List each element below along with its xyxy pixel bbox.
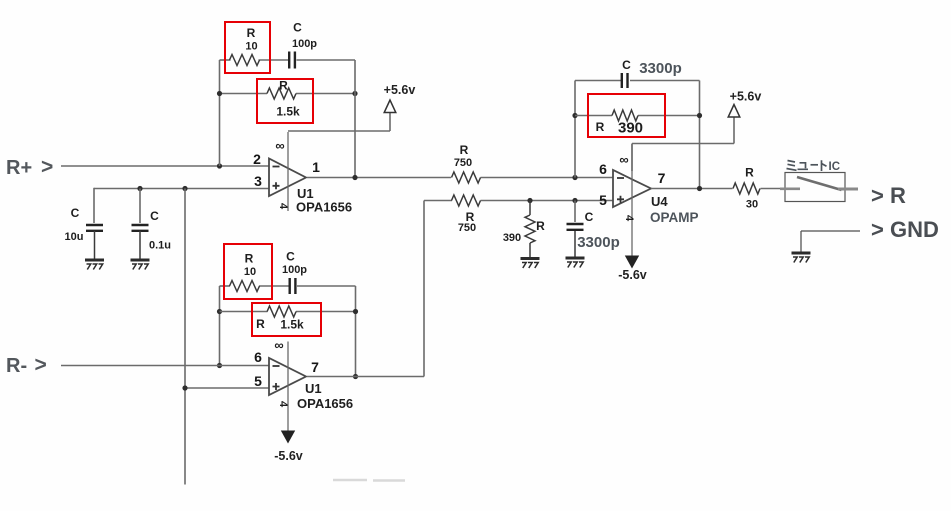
wire U1b power vertical xyxy=(287,342,289,432)
svg-text:∞: ∞ xyxy=(619,152,628,167)
ground R390 shunt xyxy=(521,257,540,260)
mute switch arm xyxy=(797,177,842,190)
node C 0.1u top xyxy=(137,186,142,191)
node pin5 tap xyxy=(182,385,187,390)
wire U4 output xyxy=(651,188,733,190)
mute switch output xyxy=(838,188,858,191)
svg-text:> GND: > GND xyxy=(871,217,939,242)
highlight box R390 fb xyxy=(588,94,665,137)
svg-text:3300p: 3300p xyxy=(577,234,620,251)
svg-text:750: 750 xyxy=(458,222,476,234)
svg-text:4: 4 xyxy=(277,401,289,408)
svg-text:100p: 100p xyxy=(282,264,307,276)
highlight box R10 top xyxy=(225,22,270,73)
highlight box R1.5k bottom xyxy=(252,303,321,336)
wire C3300p shunt drop xyxy=(574,201,576,223)
wire U1b output riser xyxy=(423,201,425,377)
svg-text:R: R xyxy=(460,143,469,157)
svg-text:7: 7 xyxy=(658,170,666,186)
svg-text:3: 3 xyxy=(254,173,262,189)
resistor R 750 (lower) xyxy=(452,195,481,206)
node R390 shunt top xyxy=(527,198,532,203)
svg-text:10: 10 xyxy=(245,41,257,53)
svg-text:5: 5 xyxy=(254,373,262,389)
svg-text:R-: R- xyxy=(6,355,27,377)
svg-text:390: 390 xyxy=(618,120,643,137)
node U4 feedback tap pin6 xyxy=(572,175,577,180)
ground output xyxy=(792,252,811,255)
ground C 10u xyxy=(85,259,104,262)
svg-text:1.5k: 1.5k xyxy=(276,105,300,119)
svg-text:C: C xyxy=(585,210,594,224)
svg-text:C: C xyxy=(293,21,302,35)
wire pin5 line (bottom U1) xyxy=(185,387,270,389)
svg-text:4: 4 xyxy=(277,203,289,210)
U4 input polarity marks xyxy=(617,177,624,179)
svg-text:U4: U4 xyxy=(651,194,668,209)
svg-text:4: 4 xyxy=(623,215,635,222)
wire GND output run xyxy=(801,230,860,232)
resistor R 390 shunt xyxy=(525,215,535,243)
svg-text:100p: 100p xyxy=(292,38,317,50)
faint artifact dashes xyxy=(333,479,405,482)
svg-text:R: R xyxy=(245,252,254,266)
svg-text:R: R xyxy=(256,317,265,331)
svg-text:R: R xyxy=(247,26,256,40)
mute IC box xyxy=(785,173,845,202)
svg-text:∞: ∞ xyxy=(274,338,283,353)
wire R- input to pin6 xyxy=(61,365,270,367)
wire feedback left vertical (bottom U1) xyxy=(219,286,221,366)
svg-text:750: 750 xyxy=(454,157,472,169)
svg-text:+5.6v: +5.6v xyxy=(730,90,762,104)
svg-text:∞: ∞ xyxy=(275,138,284,153)
wire long vertical to lower stage xyxy=(184,189,186,485)
wire U4 power vertical xyxy=(631,144,633,256)
svg-text:1.5k: 1.5k xyxy=(280,318,304,332)
svg-text:0.1u: 0.1u xyxy=(149,240,171,252)
svg-text:OPA1656: OPA1656 xyxy=(296,200,352,215)
wire U1a output to U4 pin6 xyxy=(307,177,451,179)
U1b input polarity marks xyxy=(273,365,280,367)
wire feedback top run (bottom) xyxy=(220,285,231,287)
node U4 output feedback xyxy=(697,186,702,191)
svg-text:-5.6v: -5.6v xyxy=(274,449,303,463)
resistor R 750 (upper) xyxy=(452,172,481,183)
svg-text:7: 7 xyxy=(311,359,319,375)
wire U1b output xyxy=(307,376,424,378)
op-amp U1 bottom triangle xyxy=(269,358,306,395)
node U4 fb left R390 xyxy=(572,113,577,118)
svg-text:OPAMP: OPAMP xyxy=(650,210,699,225)
svg-text:>: > xyxy=(35,354,47,377)
highlight box R10 bottom xyxy=(224,244,272,299)
U1a input polarity marks xyxy=(273,166,280,168)
wire R 1.5k run (top) xyxy=(220,93,268,95)
ground C 0.1u xyxy=(131,259,150,262)
wire +5.6v feed to U4 pin8 xyxy=(632,143,734,145)
svg-text:R: R xyxy=(596,120,605,134)
wire U4 feedback top run xyxy=(575,80,621,82)
svg-text:+5.6v: +5.6v xyxy=(384,83,416,97)
capacitor C 0.1u xyxy=(132,224,149,226)
resistor R 30 xyxy=(733,183,760,194)
svg-text:R+: R+ xyxy=(6,157,32,179)
resistor R 1.5k (top) xyxy=(267,88,296,99)
resistor R 10 (top) xyxy=(230,55,260,66)
wire R+ input to pin2 node xyxy=(61,165,270,167)
wire feedback top run xyxy=(220,59,231,61)
node R1.5k left (top) xyxy=(217,91,222,96)
wire corner down to C 10u xyxy=(93,188,95,223)
svg-text:> R: > R xyxy=(871,183,906,208)
svg-text:10: 10 xyxy=(244,266,256,278)
node U4 fb right R390 xyxy=(697,113,702,118)
wire R390 shunt drop xyxy=(529,201,531,216)
wire filter line to pin3 xyxy=(94,188,270,190)
svg-text:390: 390 xyxy=(503,232,521,244)
mute switch input stub xyxy=(780,188,800,191)
capacitor C 3300p shunt xyxy=(567,223,584,225)
negative supply arrow U4 xyxy=(625,256,639,269)
wire lower 750 line to U4 pin5 xyxy=(424,200,452,202)
svg-text:10u: 10u xyxy=(65,231,84,243)
node filter vertical tap xyxy=(182,186,187,191)
capacitor C 3300p feedback xyxy=(621,73,623,88)
wire feedback right vertical (top U1) xyxy=(354,60,356,178)
resistor R 10 (bottom) xyxy=(230,281,260,292)
wire U4 feedback right vertical xyxy=(699,81,701,189)
svg-text:>: > xyxy=(41,156,53,179)
svg-text:6: 6 xyxy=(599,161,607,177)
node R1.5k left (bottom) xyxy=(217,309,222,314)
svg-text:OPA1656: OPA1656 xyxy=(297,396,353,411)
svg-text:-5.6v: -5.6v xyxy=(618,268,647,282)
resistor R 390 feedback xyxy=(612,110,638,121)
wire C 0.1u drop xyxy=(139,189,141,224)
supply arrow +5.6v (right) xyxy=(728,105,740,118)
svg-text:30: 30 xyxy=(746,199,758,211)
svg-text:1: 1 xyxy=(312,159,320,175)
svg-text:U1: U1 xyxy=(305,381,322,396)
svg-text:C: C xyxy=(150,209,159,223)
svg-text:C: C xyxy=(622,58,631,72)
svg-text:5: 5 xyxy=(599,192,607,208)
ground C3300p shunt xyxy=(566,257,585,260)
svg-text:2: 2 xyxy=(253,151,261,167)
wire +5.6v feed to U1 pin8 xyxy=(288,130,390,132)
wire feedback left vertical (top U1) xyxy=(219,60,221,166)
svg-text:6: 6 xyxy=(254,349,262,365)
svg-text:C: C xyxy=(286,250,295,264)
wire U1a power vertical xyxy=(287,132,289,211)
node fb/R- junction xyxy=(217,363,222,368)
node output/fb (bottom U1) xyxy=(353,374,358,379)
op-amp U1 top triangle xyxy=(269,159,306,197)
op-amp U4 triangle xyxy=(613,170,651,207)
supply arrow +5.6v (left) xyxy=(384,100,396,113)
capacitor C 10u xyxy=(86,224,103,226)
capacitor C 100p (bottom) xyxy=(289,278,291,294)
svg-text:R: R xyxy=(279,79,288,93)
capacitor C 100p (top) xyxy=(288,52,290,69)
wire U4 feedback left vertical xyxy=(574,81,576,178)
wire feedback right vertical (bottom U1) xyxy=(355,286,357,377)
resistor R 1.5k (bottom) xyxy=(267,306,296,317)
node R1.5k right (top) xyxy=(352,91,357,96)
wire R390 feedback run xyxy=(575,115,612,117)
svg-text:R: R xyxy=(745,166,754,180)
svg-text:R: R xyxy=(536,219,545,233)
node R+ / feedback junction xyxy=(217,163,222,168)
svg-text:3300p: 3300p xyxy=(639,60,682,77)
label mute IC katakana xyxy=(787,160,827,171)
svg-text:C: C xyxy=(71,206,80,220)
node C3300p shunt top xyxy=(572,198,577,203)
svg-text:IC: IC xyxy=(829,161,841,173)
node output/feedback (top U1) xyxy=(352,175,357,180)
node R1.5k right (bottom) xyxy=(353,309,358,314)
highlight box R1.5k top xyxy=(257,79,313,123)
wire R 1.5k run (bottom) xyxy=(220,311,268,313)
negative supply arrow U1b xyxy=(281,431,295,444)
